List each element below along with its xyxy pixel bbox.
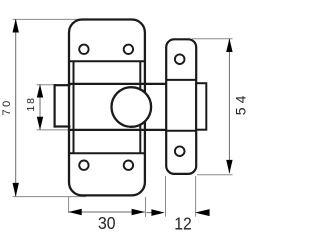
staple flange bottom line bbox=[166, 130, 196, 132]
bolt protruding end top bbox=[55, 84, 71, 86]
dim 30: ext right bbox=[145, 197, 147, 217]
screw hole top-left bbox=[79, 45, 88, 54]
dim 70: line bbox=[15, 19, 17, 196]
screw hole top-right bbox=[124, 45, 133, 54]
dim 12: arrow pointing left bbox=[195, 209, 210, 216]
dim 18: arrow up bbox=[37, 84, 43, 97]
svg-text:70: 70 bbox=[1, 98, 13, 115]
screw hole bottom-right bbox=[124, 161, 133, 170]
case top line bbox=[69, 60, 145, 62]
dim 30: ext left bbox=[68, 197, 70, 213]
dim 30: arrow left bbox=[68, 209, 81, 216]
strike plate (gache) bbox=[166, 39, 196, 174]
dim 70: arrow up bbox=[13, 19, 19, 33]
knob (bouton) bbox=[112, 87, 152, 127]
svg-text:30: 30 bbox=[98, 213, 116, 233]
dim 54: ext bottom bbox=[197, 174, 233, 176]
extension line 18 dim bottom bbox=[37, 129, 70, 131]
svg-text:18: 18 bbox=[25, 96, 37, 111]
case left edge bbox=[73, 61, 75, 153]
extension line top-left (70 dim, top) bbox=[13, 18, 83, 20]
strike hole bottom bbox=[175, 146, 185, 156]
dim 30: line bbox=[68, 211, 144, 213]
extension line bottom-left (70 dim, bottom) bbox=[13, 196, 87, 198]
screw hole bottom-left bbox=[79, 161, 88, 170]
dim 12: arrow pointing right bbox=[151, 209, 164, 216]
dim 54: line bbox=[228, 39, 230, 174]
extension line 18 dim top bbox=[37, 84, 55, 86]
dim 18: line bbox=[39, 84, 41, 129]
dim 18: arrow down bbox=[37, 117, 43, 130]
dim 12: left stub bbox=[146, 212, 152, 214]
dim 54: arrow down bbox=[226, 160, 232, 174]
case right edge bbox=[139, 61, 141, 153]
main plate body bbox=[69, 20, 145, 196]
bolt protruding end bottom bbox=[55, 125, 71, 127]
dim 30: arrow right bbox=[132, 209, 145, 216]
dim 70: arrow down bbox=[13, 183, 19, 197]
bolt channel top line bbox=[69, 83, 166, 85]
dim 12: ext right bbox=[195, 176, 197, 217]
staple flange top line bbox=[166, 79, 196, 81]
svg-text:12: 12 bbox=[174, 214, 192, 234]
svg-text:54: 54 bbox=[233, 91, 248, 115]
case bottom line bbox=[69, 152, 145, 154]
bolt bar left end bbox=[53, 84, 55, 128]
dim 54: ext top bbox=[192, 38, 233, 40]
strike hole top bbox=[175, 54, 185, 64]
staple loop box bbox=[196, 83, 206, 130]
dim 12: ext left bbox=[165, 176, 167, 217]
bolt channel bottom line bbox=[69, 129, 166, 131]
dim 54: arrow up bbox=[226, 38, 232, 52]
